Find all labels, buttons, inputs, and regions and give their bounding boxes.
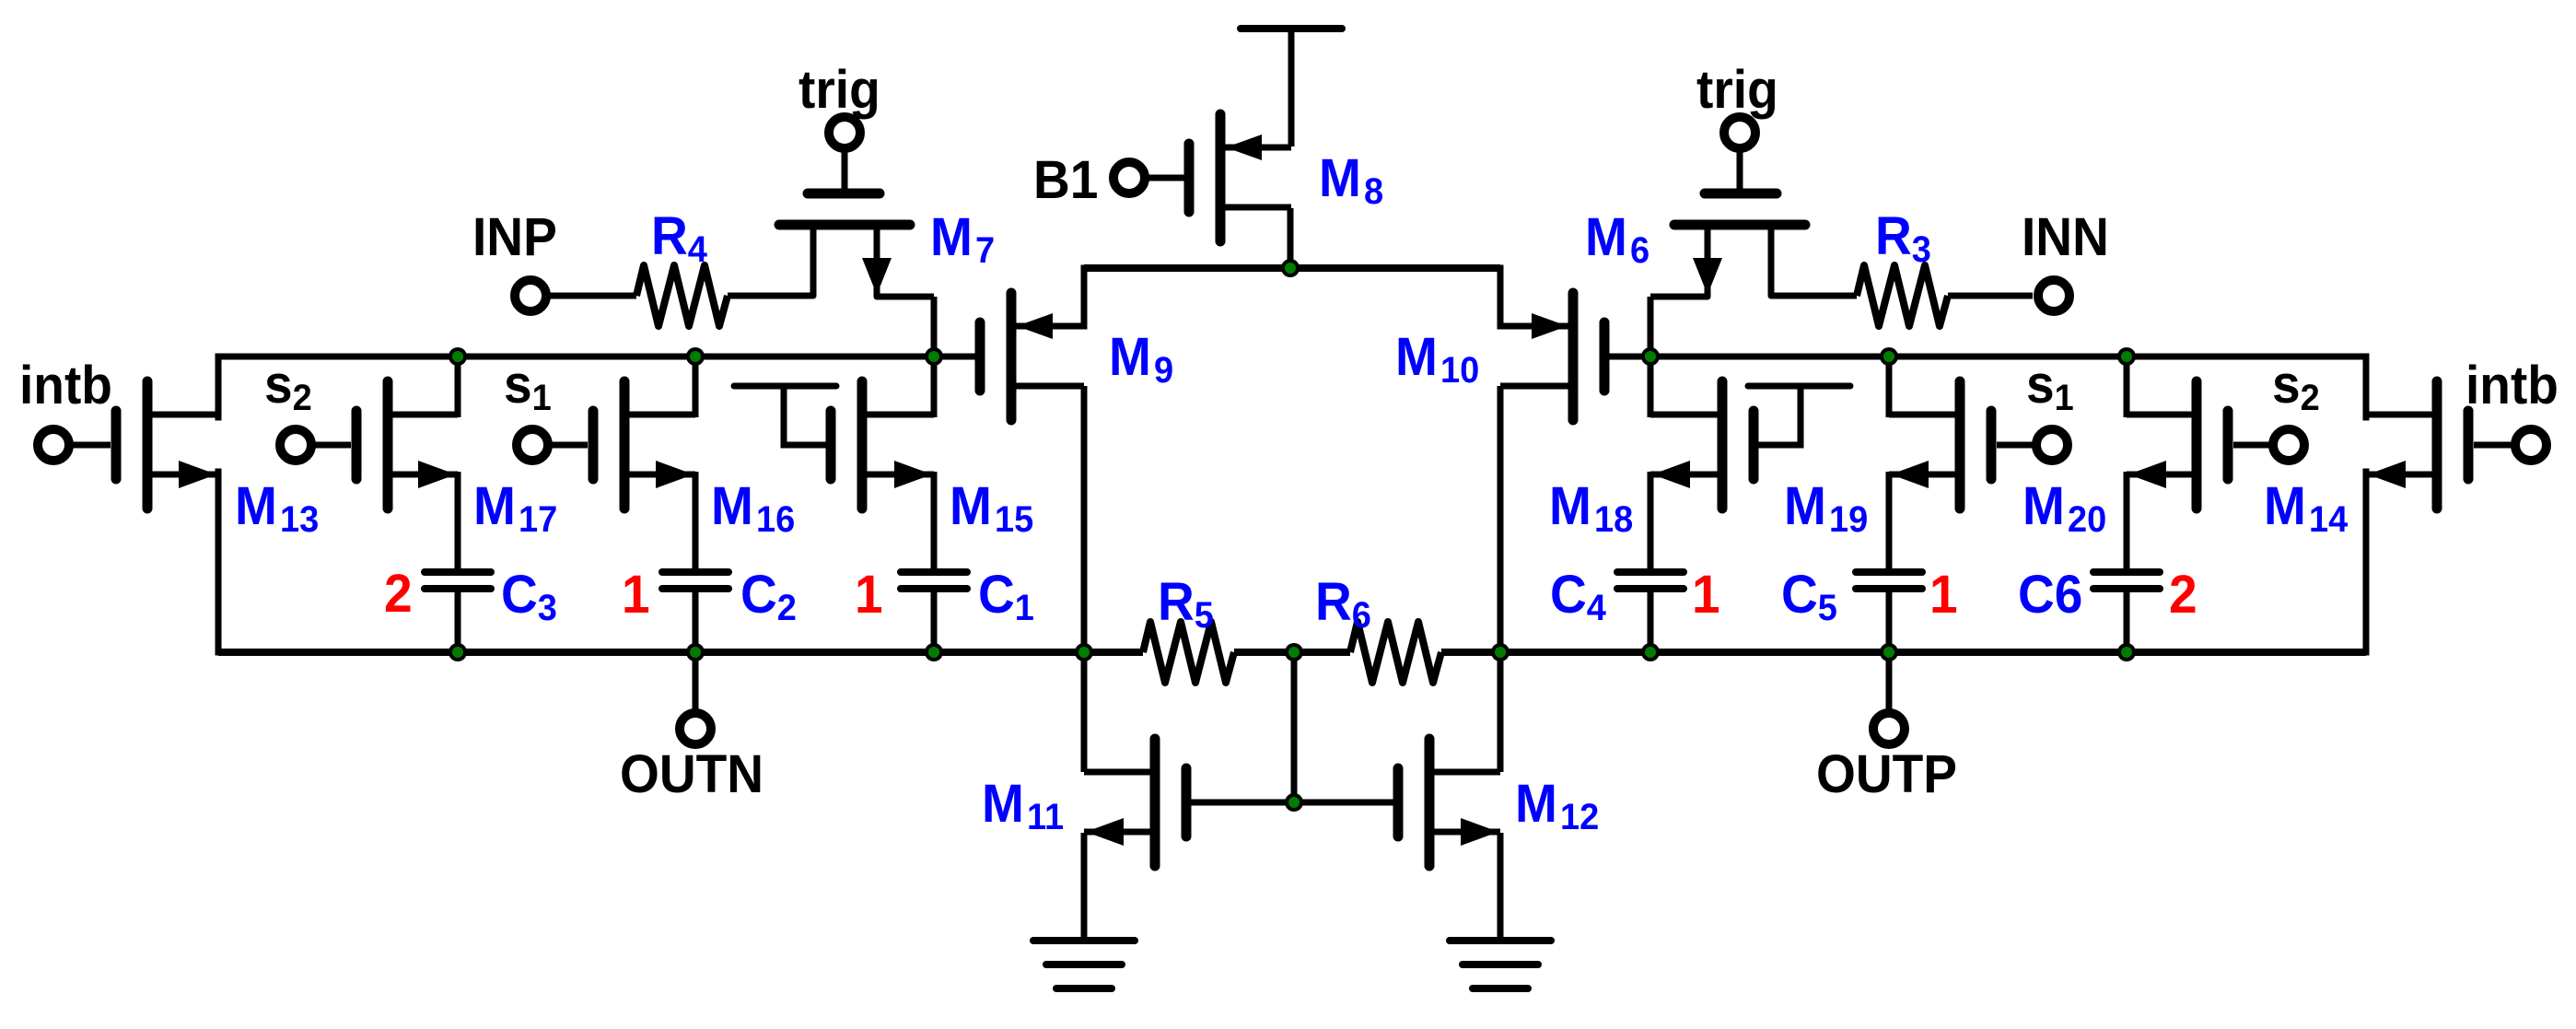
wire C4 to bottom bus bbox=[1648, 591, 1654, 652]
label M19 bbox=[1784, 476, 1868, 541]
ground under M11 bbox=[1033, 941, 1135, 988]
label M7 bbox=[930, 207, 995, 272]
svg-text:intb: intb bbox=[2465, 356, 2559, 415]
transistor M14 bbox=[2366, 381, 2468, 509]
transistor M7 bbox=[779, 193, 910, 295]
label M15 bbox=[950, 476, 1033, 541]
label C6 bbox=[2018, 565, 2082, 625]
label M12 bbox=[1515, 774, 1599, 838]
label INN bbox=[2022, 207, 2109, 267]
transistor M13 bbox=[116, 381, 218, 509]
wire M8 drain down bbox=[1288, 208, 1294, 268]
label s2 left bbox=[264, 355, 312, 419]
wire R4 to M7 source bbox=[728, 228, 813, 296]
wire M19 source to C5 bbox=[1886, 472, 1893, 570]
label M16 bbox=[711, 476, 795, 541]
capacitor C4 bbox=[1617, 572, 1684, 589]
svg-text:C6: C6 bbox=[2018, 565, 2082, 625]
label C5 bbox=[1781, 565, 1837, 629]
wire M10 drain to bottom bus / M12 drain bbox=[1498, 386, 1504, 772]
node bot center bbox=[1285, 643, 1303, 661]
wire M17 source to C3 bbox=[455, 472, 461, 570]
resistor R4 bbox=[636, 265, 728, 326]
wire C5 to bottom bus bbox=[1886, 591, 1893, 652]
value 2 at C6 bbox=[2169, 565, 2197, 625]
wire M6 drain / M18 drain vertical bbox=[1648, 297, 1654, 417]
transistor M11 bbox=[1084, 739, 1186, 866]
node bot M10/M12 bbox=[1491, 643, 1509, 661]
svg-text:trig: trig bbox=[1696, 60, 1778, 120]
node top C4/M6 bbox=[1641, 347, 1660, 366]
wire M13 source down bbox=[216, 472, 222, 652]
svg-text:INN: INN bbox=[2022, 207, 2109, 267]
node top C1/M7 bbox=[925, 347, 943, 366]
label R3 bbox=[1875, 206, 1931, 271]
transistor M16 bbox=[593, 381, 695, 509]
wire M7 drain lead bbox=[877, 228, 934, 297]
wire M11 source to ground bbox=[1081, 833, 1088, 941]
label intb left bbox=[19, 356, 112, 415]
label trig right bbox=[1696, 60, 1778, 120]
transistor M19 bbox=[1889, 381, 1991, 509]
capacitor C3 bbox=[425, 572, 491, 589]
resistor R6 bbox=[1350, 622, 1441, 683]
label INP bbox=[472, 207, 557, 267]
terminal s2 right bbox=[2233, 429, 2304, 461]
label M13 bbox=[235, 476, 319, 541]
wire bottom bus left bbox=[218, 649, 1143, 656]
label C2 bbox=[740, 565, 797, 629]
wire top bus left (M13..M9 gate net) bbox=[218, 354, 980, 360]
node top C6 bbox=[2117, 347, 2136, 366]
terminal intb right bbox=[2474, 429, 2547, 461]
wire bottom bus right bbox=[1441, 649, 2366, 656]
wire M18 source to C4 bbox=[1648, 472, 1654, 570]
wire M17 drain up bbox=[455, 357, 461, 417]
wire M19 drain up bbox=[1886, 357, 1893, 417]
node top C2 bbox=[686, 347, 705, 366]
label M10 bbox=[1395, 327, 1479, 392]
svg-text:2: 2 bbox=[2169, 565, 2197, 625]
label s1 left bbox=[504, 355, 552, 419]
wire C6 to bottom bus bbox=[2124, 591, 2130, 652]
node M8 drain bbox=[1281, 259, 1300, 277]
transistor M17 bbox=[356, 381, 458, 509]
wire M16 drain up bbox=[693, 357, 699, 417]
wire center node to gate rail bbox=[1291, 652, 1298, 802]
label M9 bbox=[1109, 327, 1173, 392]
label C3 bbox=[501, 565, 557, 629]
node bot C3 bbox=[449, 643, 467, 661]
wire C3 to bottom bus bbox=[455, 591, 461, 652]
terminal s1 right bbox=[1997, 429, 2068, 461]
label M17 bbox=[473, 476, 557, 541]
wire M9 drain to bottom bus / M11 drain bbox=[1081, 386, 1088, 772]
svg-text:intb: intb bbox=[19, 356, 112, 415]
wire M14 drain up bbox=[2363, 357, 2370, 417]
terminal trig right bbox=[1724, 117, 1755, 148]
wire M16 source to C2 bbox=[693, 472, 699, 570]
capacitor C2 bbox=[662, 572, 729, 589]
label M8 bbox=[1319, 148, 1383, 213]
svg-text:1: 1 bbox=[1929, 565, 1958, 625]
terminal s1 left bbox=[517, 429, 588, 461]
wire R3 to INN bbox=[1948, 293, 2033, 299]
node bot C6 bbox=[2117, 643, 2136, 661]
terminal INN bbox=[2038, 280, 2069, 311]
label R4 bbox=[651, 206, 707, 271]
capacitor C6 bbox=[2093, 572, 2160, 589]
node bot OUTP bbox=[1880, 643, 1898, 661]
wire OUTP stub bbox=[1886, 652, 1893, 709]
transistor M15 bbox=[734, 381, 934, 509]
label M11 bbox=[982, 774, 1064, 838]
label trig left bbox=[798, 60, 880, 120]
wire trig-L to M7 gate bbox=[842, 151, 848, 190]
resistor R3 bbox=[1857, 265, 1948, 326]
label M20 bbox=[2022, 476, 2106, 541]
label OUTP bbox=[1816, 744, 1957, 804]
label C1 bbox=[978, 565, 1034, 629]
wire trig-R to M6 gate bbox=[1737, 151, 1743, 190]
value 2 at C3 bbox=[384, 564, 413, 624]
label s2 right bbox=[2272, 355, 2320, 419]
capacitor C5 bbox=[1856, 572, 1922, 589]
terminal OUTP bbox=[1873, 713, 1905, 744]
terminal s2 left bbox=[280, 429, 351, 461]
wire M20 source to C6 bbox=[2124, 472, 2130, 570]
label s1 right bbox=[2026, 355, 2074, 419]
wire mid rail to M9 source bbox=[1081, 268, 1088, 326]
label R6 bbox=[1315, 572, 1371, 637]
transistor M10 bbox=[1500, 293, 1604, 420]
svg-text:B1: B1 bbox=[1033, 150, 1098, 210]
label B1 bbox=[1033, 150, 1098, 210]
wire C1 to bottom bus bbox=[931, 591, 938, 652]
svg-text:trig: trig bbox=[798, 60, 880, 120]
transistor M18 bbox=[1650, 381, 1850, 509]
wire OUTN stub bbox=[693, 652, 699, 709]
wire M15 source to C1 bbox=[931, 472, 938, 570]
transistor M12 bbox=[1398, 739, 1500, 866]
wire M20 drain up bbox=[2124, 357, 2130, 417]
node top C3 bbox=[449, 347, 467, 366]
svg-text:OUTN: OUTN bbox=[620, 744, 763, 804]
svg-text:2: 2 bbox=[384, 564, 413, 624]
wire M13 drain up bbox=[216, 357, 222, 417]
label intb right bbox=[2465, 356, 2559, 415]
transistor M20 bbox=[2127, 381, 2228, 509]
terminal INP bbox=[515, 280, 546, 311]
terminal OUTN bbox=[680, 713, 711, 744]
wire INP to R4 bbox=[550, 293, 636, 299]
wire bottom bus mid (R5-R6 link) bbox=[1234, 649, 1350, 656]
wire M6 source to R3 bbox=[1771, 228, 1857, 296]
ground under M12 bbox=[1450, 941, 1551, 988]
node top C5 bbox=[1880, 347, 1898, 366]
node bot C4 bbox=[1641, 643, 1660, 661]
transistor M8 bbox=[1189, 114, 1291, 241]
value 1 at C1 bbox=[855, 565, 883, 625]
svg-text:1: 1 bbox=[622, 565, 650, 625]
transistor M6 bbox=[1674, 193, 1805, 295]
node bot OUTN bbox=[686, 643, 705, 661]
wire M6 drain lead bbox=[1650, 228, 1708, 297]
svg-text:1: 1 bbox=[1692, 565, 1720, 625]
wire VDD to M8 source bbox=[1288, 29, 1295, 146]
transistor M9 bbox=[980, 293, 1084, 420]
wire top bus right (M10 gate..M14 net) bbox=[1604, 354, 2366, 360]
svg-text:1: 1 bbox=[855, 565, 883, 625]
node bot M9/M11 bbox=[1075, 643, 1093, 661]
svg-text:OUTP: OUTP bbox=[1816, 744, 1957, 804]
label OUTN bbox=[620, 744, 763, 804]
label M6 bbox=[1585, 207, 1649, 272]
label M14 bbox=[2264, 476, 2349, 541]
wire M14 source down bbox=[2363, 472, 2370, 652]
terminal B1 bbox=[1113, 162, 1145, 193]
label M18 bbox=[1549, 476, 1633, 541]
value 1 at C2 bbox=[622, 565, 650, 625]
label C4 bbox=[1550, 565, 1606, 629]
wire M7 drain / M15 drain vertical bbox=[931, 297, 938, 417]
terminal intb left bbox=[38, 429, 111, 461]
wire C2 to bottom bus bbox=[693, 591, 699, 652]
power VDD rail bbox=[1241, 25, 1342, 32]
value 1 at C4 bbox=[1692, 565, 1720, 625]
resistor R5 bbox=[1143, 622, 1234, 683]
node bot C1 bbox=[925, 643, 943, 661]
wire M12 source to ground bbox=[1498, 833, 1504, 941]
svg-text:INP: INP bbox=[472, 207, 557, 267]
wire mid rail to M10 source bbox=[1498, 268, 1504, 326]
terminal trig left bbox=[829, 117, 860, 148]
capacitor C1 bbox=[901, 572, 967, 589]
wire M11-M12 gate rail bbox=[1188, 800, 1398, 806]
wire mid rail (M9/M10 sources) bbox=[1084, 264, 1500, 272]
value 1 at C5 bbox=[1929, 565, 1958, 625]
label R5 bbox=[1158, 572, 1214, 637]
node gate rail bbox=[1285, 793, 1303, 812]
wire B1 to M8 gate bbox=[1148, 175, 1185, 181]
